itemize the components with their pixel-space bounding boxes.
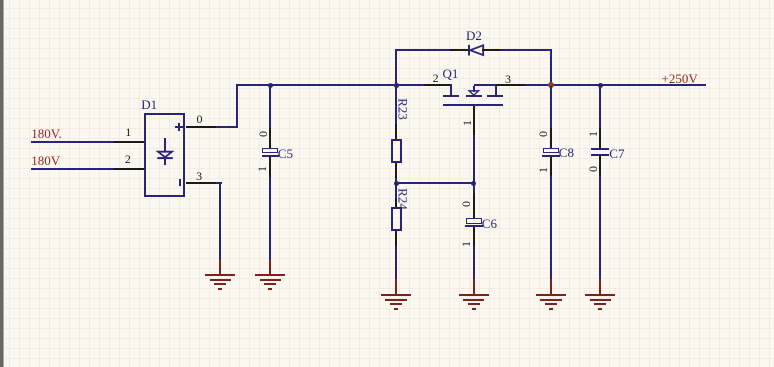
wire: horizontal to D1 pin 0	[215, 126, 238, 128]
net label +250V	[662, 72, 698, 85]
label C7	[609, 147, 624, 160]
label C6	[482, 217, 497, 230]
capacitor C5	[262, 148, 278, 154]
Q1 pin number 3	[505, 73, 511, 85]
C7 top pin (black)	[599, 128, 601, 148]
pin number 1	[125, 126, 131, 138]
junction dot at C5/bus	[268, 83, 273, 88]
C6 top pin (black)	[473, 193, 475, 218]
C6 pin label 0 (rotated)	[460, 201, 472, 207]
wire: C5 top	[269, 86, 271, 128]
D1 minus mark (rotated)	[179, 179, 181, 187]
wire: D2 right riser	[550, 49, 552, 85]
wire: C7 top	[599, 86, 601, 128]
wire: D1 pin3 to ground corner	[216, 182, 222, 184]
Q1 channel line	[443, 104, 503, 106]
pin 3 of D1 (black stub)	[186, 182, 216, 184]
label D1	[141, 98, 157, 111]
junction dot at C8/bus (maroon)	[548, 82, 554, 88]
junction dot at D2 left / R23	[394, 83, 399, 88]
ground lead (R24)	[395, 279, 397, 294]
label C5	[278, 147, 293, 160]
pin number 2	[125, 153, 131, 165]
label R24 (rotated)	[397, 188, 410, 210]
Q1 substrate arrow	[468, 90, 480, 96]
Q1 pin 3 (black)	[496, 84, 525, 86]
junction dot at C7/bus	[598, 83, 603, 88]
wire: junction row R23/R24 to C6	[395, 182, 475, 184]
wire: D2 top right segment	[500, 49, 551, 51]
capacitor C8	[543, 148, 559, 154]
D2 left pin (black)	[450, 49, 468, 51]
Q1 pin label 1 (rotated)	[461, 120, 473, 126]
D1 internal diode symbol	[150, 138, 182, 168]
ground lead (C5)	[269, 260, 271, 275]
Q1 left contact bar	[443, 95, 459, 97]
R24 top pin (black)	[395, 199, 397, 207]
C7 pin label 0 (rotated)	[587, 166, 599, 172]
net label 180V.	[31, 127, 61, 140]
ground symbol under C7	[585, 294, 615, 296]
left window edge bar	[0, 0, 3, 367]
C5 pin label 0 (rotated)	[257, 131, 269, 137]
wire: Q1 source down to junction	[473, 135, 475, 184]
C5 pin label 1 (rotated)	[256, 166, 268, 172]
net label 180V	[31, 154, 60, 167]
D2 right pin (black)	[482, 49, 500, 51]
C8 top pin (black)	[550, 128, 552, 148]
wire: main +250V bus left segment	[237, 84, 424, 86]
C7 pin label 1 (rotated)	[587, 131, 599, 137]
C7 bottom pin (black)	[599, 156, 601, 176]
wire: C8 top	[550, 86, 552, 128]
wire: C6 top	[473, 184, 475, 193]
C6 pin label 1 (rotated)	[460, 241, 472, 247]
junction dot R23/R24	[394, 181, 399, 186]
R23 top pin (black)	[395, 124, 397, 139]
Q1 source pin (black, down from channel)	[473, 106, 475, 135]
wire: C8 bottom	[550, 176, 552, 279]
pin 0 of D1 (black stub)	[186, 126, 216, 128]
C8 pin label 1 (rotated)	[537, 167, 549, 173]
R24 bottom pin (black)	[395, 231, 397, 246]
ground symbol under D1 pin3	[205, 274, 235, 276]
ground lead (C6)	[473, 279, 475, 294]
Q1 gate pin 2 (black)	[424, 84, 451, 86]
wire: bus corner drop to D1 pin 0	[236, 84, 238, 127]
wire: input net 180V.	[31, 141, 114, 143]
ground lead (C7)	[599, 279, 601, 294]
pin number 0	[197, 113, 203, 125]
junction dot C6/Q1 source	[471, 181, 476, 186]
D1 plus mark	[175, 126, 183, 128]
label R23 (rotated)	[396, 98, 409, 120]
wire: R23 bottom	[395, 178, 397, 183]
ground lead (C8)	[550, 279, 552, 294]
pin 1 of D1 (black stub)	[114, 141, 144, 143]
wire: R24 top	[395, 184, 397, 199]
Q1 drain arm horizontal (pin3 side)	[474, 84, 498, 86]
diode D2	[468, 44, 485, 57]
wire: C7 bottom	[599, 176, 601, 279]
wire: main bus right segment	[525, 84, 706, 86]
ground symbol under C6	[459, 294, 489, 296]
Q1 middle contact bar	[466, 95, 482, 97]
wire: D2 top left segment	[395, 49, 450, 51]
wire: C6 bottom	[473, 246, 475, 279]
Q1 right arm vertical	[495, 86, 497, 95]
component D1 bridge rectifier box	[144, 113, 186, 197]
wire: D1 pin3 vertical down	[219, 182, 221, 262]
wire: R24 bottom	[395, 246, 397, 279]
label D2	[466, 29, 482, 42]
wire: input net 180V	[31, 168, 114, 170]
ground symbol under R24	[381, 294, 411, 296]
C8 bottom pin (black)	[550, 157, 552, 176]
pin 2 of D1 (black stub)	[114, 168, 144, 170]
R23 body	[391, 139, 402, 163]
label Q1	[443, 67, 459, 80]
ground symbol under C8	[536, 294, 566, 296]
wire: R23 top	[395, 86, 397, 124]
wire: C5 bottom	[269, 177, 271, 261]
Q1 gate vertical	[450, 84, 452, 94]
ground symbol under C5	[255, 274, 285, 276]
wire: D2 left riser	[395, 49, 397, 85]
Q1 right contact bar	[487, 95, 503, 97]
R24 body	[391, 207, 402, 231]
pin number 3	[196, 170, 202, 182]
Q1 pin number 2	[433, 72, 439, 84]
C5 top pin (black)	[269, 128, 271, 148]
C6 bottom pin (black)	[473, 227, 475, 246]
capacitor C7	[591, 148, 609, 150]
label C8	[559, 146, 574, 159]
ground lead (D1 pin3)	[219, 260, 221, 275]
R23 bottom pin (black)	[395, 163, 397, 178]
C5 bottom pin (black)	[269, 157, 271, 177]
Q1 middle arm vertical	[473, 86, 475, 92]
C8 pin label 0 (rotated)	[537, 131, 549, 137]
